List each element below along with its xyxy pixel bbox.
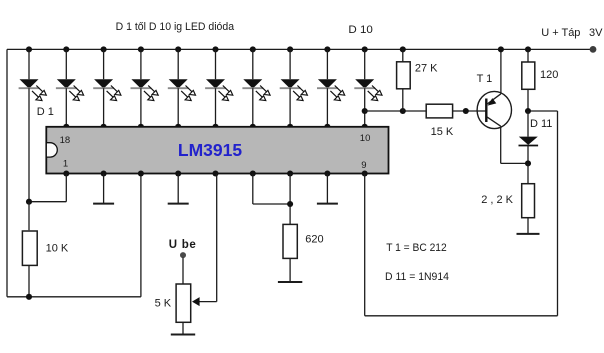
node: IC bottom pin dot: [138, 170, 144, 176]
node: emitter rail dot: [498, 46, 504, 52]
wire: pin9 loop down: [364, 174, 366, 316]
wiper arrowhead: [192, 297, 200, 306]
wire: pin9 loop to D11 node: [528, 110, 558, 112]
wire: D9 cathode to IC pin: [326, 88, 328, 127]
node: 10K top junction: [26, 199, 32, 205]
wire: 120 bottom lead: [527, 89, 529, 111]
wire: anode lead: [103, 49, 105, 79]
ground under 620: [289, 258, 291, 282]
LED light-emission arrows: [32, 86, 46, 101]
resistor R 27K: [397, 62, 411, 89]
op IC U1 LM3915 body: [46, 127, 388, 174]
node: IC top pin dot: [362, 124, 368, 130]
LED symbol (triangle + cathode bar): [243, 79, 262, 88]
LED symbol (triangle + cathode bar): [169, 79, 188, 88]
svg-text:LM3915: LM3915: [178, 140, 242, 160]
svg-text:U + Táp 3V: U + Táp 3V: [541, 27, 603, 39]
wire: D7 cathode to IC pin: [252, 88, 254, 127]
svg-text:5 K: 5 K: [155, 298, 172, 310]
wire: collector to D11 node: [501, 162, 528, 164]
node: 120 top dot: [525, 46, 531, 52]
node: IC bottom pin dot: [175, 170, 181, 176]
svg-text:10 K: 10 K: [46, 243, 69, 255]
wire: D8 cathode to IC pin: [289, 88, 291, 127]
supply terminal: [590, 46, 597, 53]
node: IC top pin dot: [287, 124, 293, 130]
LED light-emission arrows: [107, 86, 121, 101]
wire: anode lead: [289, 49, 291, 79]
node: 10K bottom junction: [26, 294, 32, 300]
LED symbol (triangle + cathode bar): [318, 79, 337, 88]
node: 27K top junction: [400, 46, 406, 52]
node: IC bottom pin dot: [324, 170, 330, 176]
wire: bottom-left rail: [7, 296, 141, 298]
svg-text:15 K: 15 K: [431, 126, 454, 138]
wire: anode lead: [364, 49, 366, 79]
node: top-rail junction at x=29.0: [26, 46, 32, 52]
resistor R 15K: [426, 104, 452, 118]
node: 27K bottom junction: [400, 108, 406, 114]
LED symbol (triangle + cathode bar): [206, 79, 225, 88]
LED symbol (triangle + cathode bar): [281, 79, 300, 88]
resistor R 620: [283, 224, 297, 258]
node: top-rail junction at x=66.3: [63, 46, 69, 52]
node: IC top pin dot: [101, 124, 107, 130]
wire: anode lead: [28, 49, 30, 79]
wire: anode lead: [140, 49, 142, 79]
node: IC top pin dot: [175, 124, 181, 130]
wire: anode lead: [215, 49, 217, 79]
wire: anode lead: [326, 49, 328, 79]
IC notch: [46, 143, 57, 157]
node: IC bottom pin dot: [101, 170, 107, 176]
node: top-rail junction at x=290.1: [287, 46, 293, 52]
wire: 10K bottom lead: [28, 265, 30, 297]
resistor R 2.2K: [527, 163, 529, 183]
wire: D10 cathode to IC pin: [364, 88, 366, 127]
node: top-rail junction at x=140.9: [138, 46, 144, 52]
node: IC top pin dot: [212, 124, 218, 130]
LED light-emission arrows: [144, 86, 158, 101]
wire: pin elbow down to 620 node: [252, 174, 254, 205]
node: IC top pin dot: [324, 124, 330, 130]
node: top-rail junction at x=364.7: [362, 46, 368, 52]
LED symbol (triangle + cathode bar): [131, 79, 150, 88]
wire: 15K to base: [453, 110, 487, 112]
node: IC top pin dot: [63, 124, 69, 130]
node: IC bottom pin dot: [250, 170, 256, 176]
svg-text:D 11 = 1N914: D 11 = 1N914: [385, 271, 449, 283]
wire: left vertical rail: [6, 49, 8, 296]
wire: 27K top lead: [402, 49, 404, 61]
wire: U be to pot: [182, 258, 184, 284]
wire: anode lead: [65, 49, 67, 79]
wire: D5 cathode to IC pin: [177, 88, 179, 127]
svg-text:T 1 = BC 212: T 1 = BC 212: [386, 242, 447, 254]
svg-text:2,2K: 2,2K: [481, 194, 516, 206]
wire: pin column down to bottom-left rail: [140, 174, 142, 297]
node: IC top pin dot: [250, 124, 256, 130]
svg-text:10: 10: [360, 133, 371, 144]
wire: pin straight to 620: [289, 174, 291, 225]
T1 emitter arrowhead (PNP): [488, 98, 497, 106]
wire: row from pin10 column to 15K: [365, 110, 427, 112]
svg-text:D 1: D 1: [37, 106, 54, 118]
svg-text:9: 9: [361, 160, 366, 171]
svg-text:1: 1: [63, 159, 68, 170]
LED light-emission arrows: [219, 86, 233, 101]
svg-text:T 1: T 1: [477, 73, 493, 85]
node: IC top pin dot: [138, 124, 144, 130]
svg-text:120: 120: [540, 69, 558, 81]
LED light-emission arrows: [181, 86, 195, 101]
svg-text:27 K: 27 K: [415, 62, 438, 74]
LED symbol (triangle + cathode bar): [94, 79, 113, 88]
node: top-rail junction at x=327.4: [324, 46, 330, 52]
LED light-emission arrows: [368, 86, 382, 101]
wire: emitter up to rail: [500, 49, 502, 93]
wire: D6 cathode to IC pin: [215, 88, 217, 127]
wire: pin9 loop right riser: [557, 111, 559, 316]
svg-text:D 10: D 10: [348, 24, 373, 36]
wire: collector down: [500, 126, 502, 163]
LED light-emission arrows: [256, 86, 270, 101]
svg-text:620: 620: [305, 234, 323, 246]
node: IC bottom pin dot: [212, 170, 218, 176]
svg-text:18: 18: [60, 135, 71, 146]
node: 620 top junction: [287, 201, 293, 207]
ground under pin (x=327.4): [326, 174, 328, 204]
node: pin10 row junction: [362, 108, 368, 114]
wire: pin1 to 10K node: [29, 201, 66, 203]
LED symbol (triangle + cathode bar): [57, 79, 76, 88]
ground under pot: [182, 322, 184, 334]
node: IC bottom pin dot: [287, 170, 293, 176]
wire: 27K bottom lead: [402, 89, 404, 111]
wire: anode lead: [252, 49, 254, 79]
node: D11 bottom junction: [525, 160, 531, 166]
LED symbol (triangle + cathode bar): [20, 79, 39, 88]
node: top-rail junction at x=178.2: [175, 46, 181, 52]
wire: 120 top lead: [527, 49, 529, 62]
LED light-emission arrows: [69, 86, 83, 101]
resistor R 10K: [22, 231, 37, 265]
ground under 2.2K: [527, 218, 529, 234]
node: base junction dot: [463, 108, 469, 114]
svg-text:U be: U be: [169, 239, 197, 251]
wire: pin1 lead down: [65, 174, 67, 202]
wire: D3 cathode to IC pin: [103, 88, 105, 127]
diode D11: [527, 111, 529, 137]
wire: D2 cathode to IC pin: [65, 88, 67, 127]
T1 collector diagonal: [487, 117, 501, 126]
wire: pin9 loop bottom run: [365, 315, 558, 317]
node: 120/D11 junction: [525, 108, 531, 114]
wire: 10K top lead: [28, 202, 30, 231]
LED light-emission arrows: [293, 86, 307, 101]
wire: wiper horizontal to pot: [199, 301, 217, 303]
svg-text:D 1 től D 10 ig LED dióda: D 1 től D 10 ig LED dióda: [116, 21, 235, 33]
node: top-rail junction at x=103.6: [101, 46, 107, 52]
node: top-rail junction at x=215.5: [212, 46, 218, 52]
LED symbol (triangle + cathode bar): [355, 79, 374, 88]
node: top-rail junction at x=252.8: [250, 46, 256, 52]
T1 emitter diagonal: [487, 94, 501, 105]
potentiometer P 5K body: [176, 284, 191, 322]
svg-text:D 11: D 11: [530, 118, 552, 130]
wire: D1 cathode down to 10K node: [28, 88, 30, 202]
wire: D4 cathode to IC pin: [140, 88, 142, 127]
transistor Q T1 (PNP BC212): [477, 91, 511, 128]
node: IC bottom pin dot: [63, 170, 69, 176]
input terminal U be: [180, 252, 186, 258]
ground under pin (x=178.2): [177, 174, 179, 204]
wire: wiper pin column down: [216, 174, 218, 302]
wire: +supply top rail: [7, 48, 593, 50]
ground under pin (x=103.6): [103, 174, 105, 204]
wire: anode lead: [177, 49, 179, 79]
node: IC bottom pin dot: [362, 170, 368, 176]
resistor R 120: [522, 62, 535, 89]
LED light-emission arrows: [330, 86, 344, 101]
